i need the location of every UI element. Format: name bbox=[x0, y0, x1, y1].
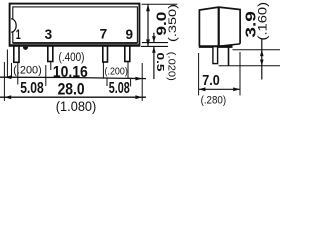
svg-text:(.020): (.020) bbox=[165, 52, 177, 81]
svg-text:(.200): (.200) bbox=[105, 66, 128, 77]
svg-text:(.160): (.160) bbox=[258, 2, 270, 41]
svg-text:(.280): (.280) bbox=[201, 94, 227, 106]
svg-text:5.08: 5.08 bbox=[109, 80, 130, 97]
svg-text:(.200): (.200) bbox=[13, 64, 42, 76]
svg-text:10.16: 10.16 bbox=[53, 64, 88, 81]
svg-text:7.0: 7.0 bbox=[202, 72, 220, 89]
svg-text:9: 9 bbox=[126, 27, 134, 42]
svg-text:0.5: 0.5 bbox=[154, 53, 166, 72]
svg-text:5.08: 5.08 bbox=[20, 80, 44, 97]
svg-text:28.0: 28.0 bbox=[58, 80, 85, 98]
svg-text:3: 3 bbox=[45, 27, 53, 42]
svg-text:(.400): (.400) bbox=[59, 52, 85, 64]
svg-text:7: 7 bbox=[100, 26, 108, 41]
svg-text:1: 1 bbox=[16, 27, 21, 42]
svg-text:(.350): (.350) bbox=[167, 4, 179, 42]
svg-text:(1.080): (1.080) bbox=[56, 99, 97, 114]
